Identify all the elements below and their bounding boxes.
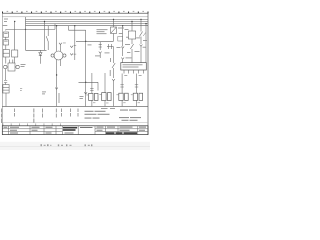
wire branch [68, 26, 70, 31]
label text mid cluster [88, 45, 110, 57]
wire [5, 83, 7, 85]
top ruler line [2, 12, 148, 14]
logo cell [63, 127, 77, 131]
connector chevron [121, 58, 124, 60]
wire [59, 60, 61, 66]
pin 5 [143, 70, 145, 74]
note text right [119, 110, 141, 121]
label text X1 [126, 57, 132, 60]
relay coil K4 [102, 93, 111, 101]
label text wire 31 [58, 93, 61, 103]
switch body S4 [118, 37, 123, 42]
bus rail 31 [26, 25, 149, 27]
node M [56, 25, 57, 26]
bottom ruler labels [3, 123, 61, 125]
wire [122, 59, 124, 62]
wire [97, 82, 99, 90]
node J [145, 23, 146, 24]
title block frame [2, 126, 148, 135]
doc number dark bar [106, 132, 137, 134]
relay coil K1 [12, 50, 18, 57]
pin 4 [138, 70, 140, 74]
node F [113, 19, 114, 20]
wire feeder [25, 17, 27, 50]
wire [140, 37, 142, 45]
label text S1 [21, 64, 26, 67]
wire [140, 19, 142, 31]
switch S2 [46, 26, 48, 50]
frame inner top line [2, 16, 148, 18]
wire [122, 48, 124, 56]
connector chevron [59, 43, 62, 45]
contact marks above K5 [120, 85, 123, 87]
viewer toolbar icons [41, 144, 93, 146]
label text left of chevron [80, 96, 84, 99]
node E [85, 82, 86, 83]
ground bus [2, 105, 148, 107]
title block text smudges [4, 127, 147, 134]
title block dividers [2, 126, 148, 135]
bus rail 15 [26, 21, 149, 23]
wire [14, 22, 16, 51]
wire [5, 29, 7, 30]
contact tick [143, 32, 146, 36]
frame left border [1, 13, 3, 134]
label text 30 [3, 19, 8, 26]
label text S3 [110, 58, 142, 76]
wire [59, 45, 61, 52]
relay coil K5 [119, 93, 128, 100]
wire [113, 19, 115, 27]
wire [121, 100, 123, 106]
node B [44, 21, 45, 22]
diode D2 [99, 42, 102, 50]
stub [9, 60, 11, 64]
wire [140, 46, 142, 62]
wire number labels below bus [1, 109, 78, 124]
wire branch 29 [6, 28, 55, 30]
connector chevron [112, 79, 115, 81]
wire [79, 81, 99, 83]
relay pin labels [86, 94, 140, 103]
note text block [85, 111, 110, 119]
contact marks above K3 [90, 89, 93, 91]
node A [14, 21, 15, 22]
ruler ticks [3, 12, 149, 14]
connector chevron [55, 88, 58, 90]
label text A1 [123, 64, 143, 67]
wire [74, 26, 76, 60]
node C [74, 25, 75, 26]
connector chevron [99, 52, 102, 54]
wire [145, 24, 147, 63]
wire lateral [26, 49, 47, 51]
control unit A1 [121, 63, 147, 70]
transistor Q1 [111, 27, 117, 34]
wire stub [39, 50, 41, 52]
viewer divider line [0, 146, 150, 148]
wire [69, 29, 86, 31]
wire [104, 73, 106, 93]
terminal marks [4, 81, 7, 83]
wire [14, 57, 16, 63]
relay K2 [128, 31, 135, 39]
relay coil K6 [133, 93, 142, 100]
relay coil K3 [89, 93, 98, 100]
contact S3 [112, 56, 115, 78]
wire [113, 81, 115, 107]
wire [121, 74, 123, 94]
contact K2.1 [130, 44, 133, 49]
viewer background strip [0, 142, 150, 150]
label text K3 [97, 29, 108, 34]
connector chevron [70, 53, 73, 55]
wire [91, 100, 93, 106]
stub [12, 60, 14, 64]
node H [131, 21, 132, 22]
wire [44, 22, 46, 51]
wire [113, 34, 115, 42]
connector chevron [121, 47, 124, 49]
wire [104, 101, 106, 107]
contact K1.1 [139, 32, 142, 37]
wire [5, 37, 7, 40]
label text right cluster [117, 28, 148, 53]
contact marks above K6 [135, 85, 138, 87]
wire [5, 57, 7, 64]
pin 1 [123, 70, 125, 74]
connector block S1 [4, 63, 20, 71]
node K [56, 74, 57, 75]
wire [131, 39, 133, 44]
wire [56, 26, 58, 52]
pin 2 [128, 70, 130, 74]
label text R1 [20, 88, 22, 91]
wire [122, 26, 124, 47]
label text F-list [42, 92, 46, 95]
fuse F1 [3, 32, 8, 37]
bus rail 58 [26, 23, 149, 25]
fuse F2 [3, 40, 8, 45]
wire [76, 40, 114, 42]
wire [136, 74, 138, 94]
wire [5, 93, 7, 106]
wire [85, 30, 87, 41]
diode D1 [39, 53, 42, 56]
relay coil K0 [3, 50, 9, 58]
bottom ruler line [2, 122, 148, 124]
node G [122, 25, 123, 26]
wire [5, 69, 7, 80]
node feeder [25, 29, 26, 30]
connector chevron [140, 45, 143, 47]
connector chevron [70, 46, 73, 48]
bus rail 30 [26, 18, 149, 20]
wire [131, 49, 133, 63]
resistor R2 [107, 44, 113, 49]
wire [56, 60, 58, 107]
wire riser [54, 24, 56, 30]
wire [5, 45, 7, 50]
frame right border [147, 13, 149, 134]
node D [85, 41, 86, 42]
label text under bus [101, 107, 108, 110]
wire [39, 56, 41, 64]
label text M1 [63, 43, 76, 55]
connector chevron [84, 92, 87, 94]
ruler number dots [7, 10, 144, 13]
wire [85, 41, 87, 106]
wire [136, 100, 138, 106]
motor M1 [51, 51, 66, 60]
wire [91, 73, 93, 93]
resistor R1 [3, 85, 9, 94]
label text under bus 2 [110, 107, 115, 110]
wire [131, 22, 133, 32]
pin 3 [133, 70, 135, 74]
wire [113, 46, 115, 56]
wire [99, 53, 101, 58]
node I [140, 19, 141, 20]
